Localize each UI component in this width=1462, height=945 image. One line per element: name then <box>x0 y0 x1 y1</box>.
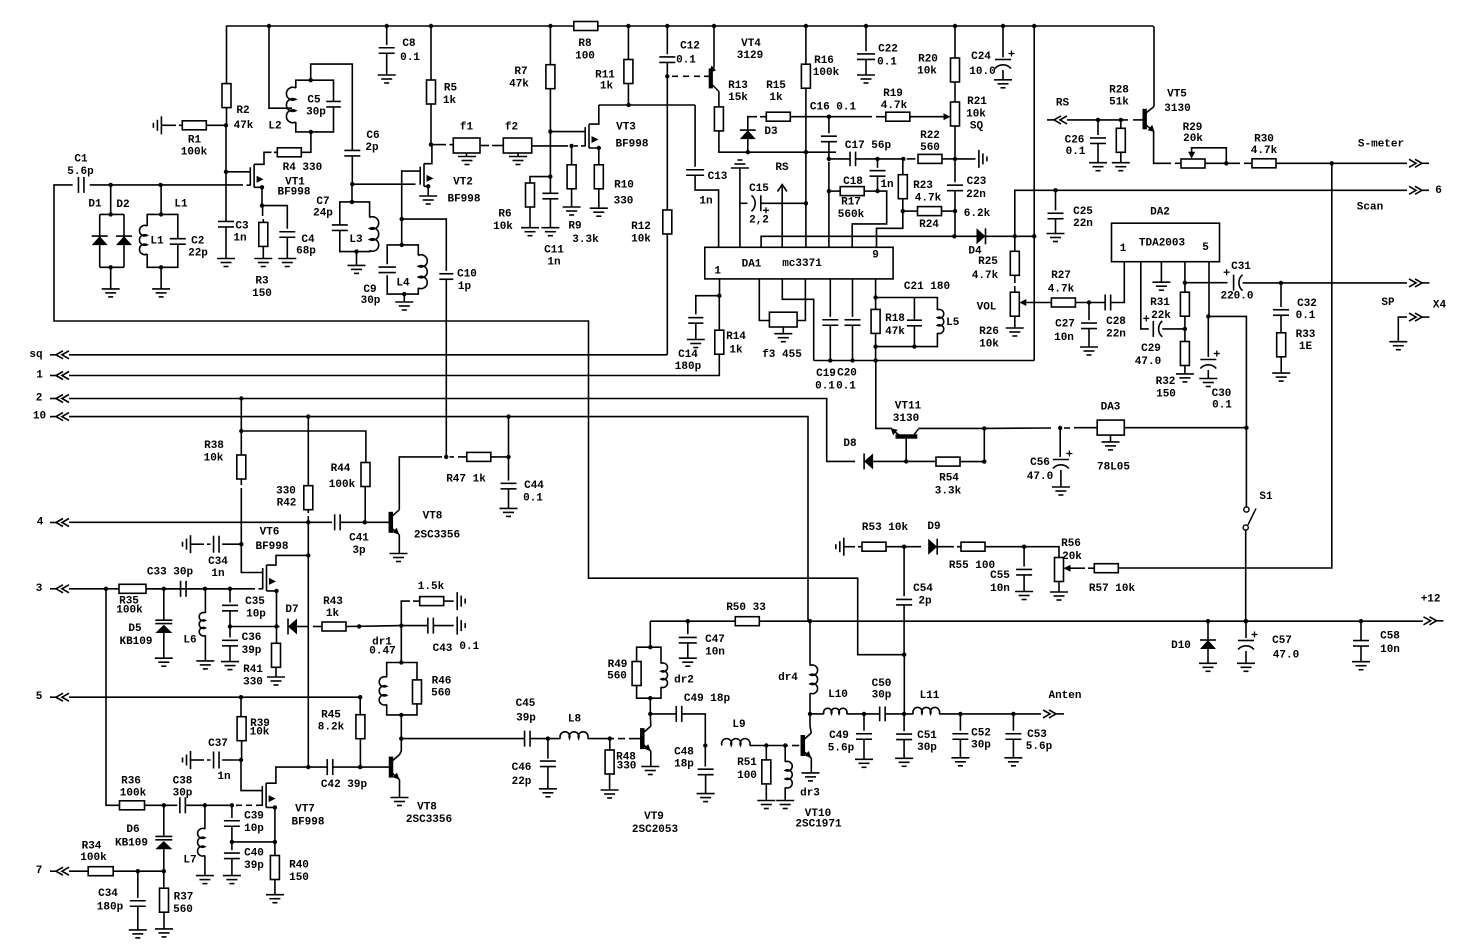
resistor R6 <box>526 183 535 207</box>
ground <box>348 264 366 266</box>
wire wiper to R27 <box>1026 302 1051 304</box>
inductor L10 <box>824 708 847 714</box>
junction <box>506 455 510 459</box>
capacitor C1 <box>77 177 79 193</box>
wire R23 jog to DA1 <box>877 211 903 247</box>
junction <box>1032 234 1036 238</box>
resistor R16 <box>801 64 810 88</box>
wire L6 <box>204 589 206 613</box>
connector chevron <box>56 351 69 359</box>
svg-text:BF998: BF998 <box>255 541 288 553</box>
svg-text:1n: 1n <box>699 196 712 208</box>
wire bus to R11 <box>627 26 629 59</box>
svg-text:R19: R19 <box>883 88 903 100</box>
svg-text:C8: C8 <box>402 38 416 50</box>
junction <box>648 696 652 700</box>
svg-text:L11: L11 <box>920 690 940 702</box>
svg-text:10.0: 10.0 <box>969 66 995 78</box>
wire f2 to ground <box>517 153 519 157</box>
svg-text:22n: 22n <box>1073 218 1093 230</box>
wire VT6 source <box>267 591 277 627</box>
ground <box>419 195 437 197</box>
wire C22 to ground <box>865 60 867 76</box>
connector chevron <box>1054 116 1067 124</box>
svg-text:1k: 1k <box>443 95 457 107</box>
junction <box>1096 118 1100 122</box>
R26 wiper arrow <box>1019 299 1026 306</box>
wire C21 bottom <box>913 326 915 347</box>
wire VT5 collector to bus <box>1152 26 1155 107</box>
ground (sideways) <box>190 751 192 769</box>
wire R19 to R21 wiper <box>910 116 944 118</box>
junction <box>569 144 573 148</box>
connector chevron <box>56 372 69 380</box>
wire C53 to ground <box>1012 739 1014 758</box>
wire C44 leg <box>508 457 510 481</box>
svg-text:2p: 2p <box>365 142 379 154</box>
diode D2 <box>116 236 132 245</box>
wire C30 to ground <box>1207 370 1209 379</box>
junction <box>982 459 986 463</box>
junction <box>267 24 271 28</box>
svg-text:C16 0.1: C16 0.1 <box>810 102 857 114</box>
svg-text:TDA2003: TDA2003 <box>1139 238 1186 250</box>
wire bus to C8 <box>386 26 388 45</box>
wire to f1 <box>431 144 446 146</box>
junction <box>1224 161 1228 165</box>
transistor VT2 BF998 <box>419 167 421 185</box>
junction <box>399 736 403 740</box>
svg-text:R57 10k: R57 10k <box>1089 583 1136 595</box>
junction <box>902 653 906 657</box>
wire D5 to ground <box>163 633 165 658</box>
svg-text:47k: 47k <box>509 79 529 91</box>
junction <box>444 455 448 459</box>
resistor R35 <box>119 584 146 593</box>
svg-text:20k: 20k <box>1183 133 1203 145</box>
capacitor C17 <box>849 152 851 167</box>
svg-text:4.7k: 4.7k <box>881 100 908 112</box>
ground <box>129 929 147 931</box>
junction <box>162 869 166 873</box>
wire D6 down <box>163 849 165 871</box>
svg-text:330: 330 <box>614 196 634 208</box>
svg-text:180p: 180p <box>97 902 124 914</box>
svg-text:C48: C48 <box>674 746 694 758</box>
svg-text:10n: 10n <box>990 583 1010 595</box>
junction <box>648 645 652 649</box>
svg-text:C49: C49 <box>829 730 849 742</box>
svg-text:C24: C24 <box>971 51 991 63</box>
svg-text:0.1: 0.1 <box>523 493 543 505</box>
svg-text:3.3k: 3.3k <box>935 486 962 498</box>
wire tank to R50 line <box>649 621 651 647</box>
wire to ground <box>110 267 112 289</box>
svg-text:0.1: 0.1 <box>459 641 479 653</box>
svg-text:30p: 30p <box>173 788 193 800</box>
wire D10 to ground <box>1207 649 1209 663</box>
svg-text:C39: C39 <box>244 811 264 823</box>
svg-text:100k: 100k <box>120 788 147 800</box>
transistor VT7 BF998 <box>261 786 263 806</box>
junction <box>804 150 808 154</box>
capacitor C20 <box>845 319 861 321</box>
junction <box>828 358 832 362</box>
svg-text:6.2k: 6.2k <box>964 208 991 220</box>
svg-text:C29: C29 <box>1141 343 1161 355</box>
wire D9 to R55 <box>937 546 954 548</box>
junction <box>548 174 552 178</box>
wire L8 to R48 node <box>588 738 614 740</box>
wire R38-R44 link <box>241 431 366 463</box>
svg-text:SP: SP <box>1381 297 1395 309</box>
wire D2 leg <box>123 214 125 236</box>
capacitor C29 47uF <box>1152 321 1154 337</box>
wire D1 leg <box>99 214 101 236</box>
svg-text:R47 1k: R47 1k <box>446 474 486 486</box>
wire R45 from line 5 <box>359 697 361 714</box>
wire L1 tank top rail <box>147 214 178 238</box>
wire VT11 collector <box>918 427 984 429</box>
connector chevron <box>56 519 69 527</box>
capacitor C27 <box>1081 322 1097 324</box>
junction <box>1244 426 1248 430</box>
svg-text:22k: 22k <box>1151 310 1171 322</box>
svg-text:10: 10 <box>33 411 46 423</box>
resistor R25 <box>1010 251 1019 275</box>
svg-text:mc3371: mc3371 <box>782 258 822 270</box>
ground <box>509 156 527 158</box>
wire VT4 collector to R13 <box>718 92 720 107</box>
wire VT11 base <box>905 438 907 461</box>
capacitor C34 <box>213 536 215 553</box>
wire C20 leg <box>852 279 854 317</box>
junction <box>1032 24 1036 28</box>
ground <box>196 660 214 662</box>
ground <box>378 74 396 76</box>
resistor R33 <box>1277 333 1286 357</box>
wire f3 right <box>797 279 805 321</box>
svg-text:D9: D9 <box>927 521 940 533</box>
wire antenna line <box>810 713 824 715</box>
junction <box>358 765 362 769</box>
wire R43 right <box>346 625 401 628</box>
wire R24 right <box>942 210 955 212</box>
wire C27 leg <box>1088 303 1090 321</box>
junction <box>1001 24 1005 28</box>
svg-text:C41: C41 <box>349 533 369 545</box>
junction <box>1330 161 1334 165</box>
wire L6 to ground <box>204 635 206 661</box>
wire R44 down <box>364 487 366 523</box>
ground <box>1004 757 1022 759</box>
svg-text:R40: R40 <box>289 860 309 872</box>
svg-text:D6: D6 <box>126 824 139 836</box>
wire from line 10 to R47 <box>508 417 510 457</box>
wire S1 to +12 bus <box>1245 530 1247 621</box>
svg-text:0.1: 0.1 <box>1212 400 1232 412</box>
wire to L4 tank <box>401 219 403 245</box>
svg-text:D2: D2 <box>116 199 129 211</box>
junction <box>804 201 808 205</box>
resistor R42 <box>304 486 313 510</box>
wire C49 down to L9 line <box>682 714 706 746</box>
svg-text:47.0: 47.0 <box>1027 471 1053 483</box>
wire C36 <box>229 627 231 638</box>
svg-text:C58: C58 <box>1380 631 1400 643</box>
wire dr4 down <box>809 693 811 714</box>
svg-text:R32: R32 <box>1156 376 1176 388</box>
wire dr2 tank bottom <box>637 686 661 699</box>
resistor 1.5k <box>420 597 444 606</box>
svg-text:C1: C1 <box>74 154 88 166</box>
wire C26 to ground <box>1097 144 1099 163</box>
wire to C13 <box>694 105 696 167</box>
connector chevron <box>1409 186 1422 194</box>
resistor R34 <box>88 867 113 876</box>
connector chevron <box>1409 159 1422 167</box>
IC DA1 mc3371 <box>705 247 893 279</box>
wire C55 leg <box>1023 547 1025 567</box>
wire tank to ground <box>356 252 358 266</box>
wire VT11 emitter <box>876 361 892 429</box>
wire C45 to L8 <box>531 738 561 740</box>
capacitor C15 2.2uF <box>752 195 756 211</box>
junction <box>982 426 986 430</box>
svg-text:L6: L6 <box>183 635 196 647</box>
svg-text:C50: C50 <box>872 678 892 690</box>
resistor R23 <box>898 175 907 199</box>
svg-text:C36: C36 <box>242 632 262 644</box>
junction <box>808 619 812 623</box>
wire C58 leg <box>1360 621 1362 640</box>
svg-text:R51: R51 <box>737 757 757 769</box>
wire collector line to DA3 <box>984 427 1051 429</box>
wire C43 line <box>401 625 427 627</box>
svg-text:330: 330 <box>617 761 637 773</box>
svg-text:C2: C2 <box>191 235 204 247</box>
svg-text:1k: 1k <box>326 608 340 620</box>
capacitor C28 <box>1104 295 1106 311</box>
wire R55 to R56 <box>986 547 1059 558</box>
ground <box>278 258 296 260</box>
junction <box>309 130 313 134</box>
svg-text:10p: 10p <box>246 609 266 621</box>
svg-text:2SC3356: 2SC3356 <box>406 814 452 826</box>
svg-text:0.1: 0.1 <box>815 381 835 393</box>
wire to D1 D2 rail <box>110 185 112 215</box>
wire VT7 drain <box>266 767 327 783</box>
svg-text:R46: R46 <box>432 676 452 688</box>
svg-text:5.6p: 5.6p <box>67 166 94 178</box>
svg-text:C49 18p: C49 18p <box>684 693 731 705</box>
junction <box>958 712 962 716</box>
svg-text:3.3k: 3.3k <box>572 234 599 246</box>
wire C7 tank bottom <box>340 231 370 252</box>
wire L7 <box>204 805 206 829</box>
wire C39 leg <box>231 805 233 818</box>
svg-text:20k: 20k <box>1062 551 1082 563</box>
ground (sideways) <box>160 116 162 134</box>
wire pin5 jog to S1 <box>1208 316 1246 427</box>
svg-text:1k: 1k <box>769 92 783 104</box>
svg-text:C34: C34 <box>208 556 228 568</box>
capacitor C10 <box>439 273 453 275</box>
resistor R8 <box>574 22 598 31</box>
junction <box>230 840 234 844</box>
junction <box>804 24 808 28</box>
svg-text:10n: 10n <box>705 646 725 658</box>
wire DA2 gnd pin <box>1160 262 1162 283</box>
wire RS down to DA1 <box>781 203 783 247</box>
svg-text:D1: D1 <box>88 199 102 211</box>
wire VT10 collector <box>810 714 811 733</box>
wire R31 <box>1184 283 1186 293</box>
resistor R30 <box>1252 159 1276 168</box>
svg-text:1: 1 <box>1120 243 1127 255</box>
inductor L2 <box>286 87 295 122</box>
wire VT2 gate1 jog <box>402 171 421 184</box>
wire C34b leg <box>137 871 139 898</box>
capacitor C7 <box>332 224 348 226</box>
svg-text:L5: L5 <box>946 317 960 329</box>
svg-text:C28: C28 <box>1106 316 1126 328</box>
junction <box>665 24 669 28</box>
wire C15 line <box>740 202 748 204</box>
svg-text:47k: 47k <box>234 120 254 132</box>
wire C48 <box>704 746 706 767</box>
svg-text:100k: 100k <box>329 479 356 491</box>
wire C39 down <box>231 826 233 842</box>
junction <box>109 183 113 187</box>
wire to R3 <box>262 206 264 216</box>
wire RS to VT5 base <box>1067 119 1128 121</box>
ground <box>857 74 875 76</box>
svg-text:10p: 10p <box>244 823 264 835</box>
capacitor C53 <box>1005 733 1021 735</box>
trimmer R56 <box>1055 558 1064 582</box>
diode D1 <box>92 236 108 245</box>
svg-text:8.2k: 8.2k <box>318 722 345 734</box>
ground <box>391 797 409 799</box>
wire R11 down <box>627 84 629 106</box>
junction <box>1013 234 1017 238</box>
resistor R27 <box>1051 298 1075 307</box>
svg-text:10k: 10k <box>966 109 986 121</box>
wire tank to bottom bus <box>875 347 877 361</box>
wire R54 right <box>960 461 984 463</box>
wire C17 to C18 node <box>856 158 904 160</box>
wire R17 right <box>864 190 877 192</box>
svg-text:R43: R43 <box>323 596 343 608</box>
wire C48 to ground <box>705 775 707 794</box>
ground <box>390 553 408 555</box>
capacitor C34 (2) <box>130 900 146 902</box>
ground <box>757 800 775 802</box>
junction <box>862 712 866 716</box>
svg-text:S-meter: S-meter <box>1358 139 1404 151</box>
svg-text:R4 330: R4 330 <box>283 162 323 174</box>
wire C32 to R33 <box>1280 315 1282 333</box>
ground <box>221 661 239 663</box>
wire to C4 <box>262 206 287 229</box>
ground <box>500 507 518 509</box>
wire C46 leg <box>547 739 549 759</box>
svg-text:3: 3 <box>36 583 43 595</box>
svg-text:10k: 10k <box>493 221 513 233</box>
svg-text:R27: R27 <box>1051 270 1071 282</box>
junction <box>912 344 916 348</box>
svg-text:R38: R38 <box>204 440 224 452</box>
wire gnd to C34 <box>191 543 205 545</box>
wire to C14 <box>696 296 720 315</box>
wire to side ground <box>444 600 454 602</box>
wire R31 down <box>1184 316 1186 341</box>
wire C28 to DA2 pin1 <box>1111 262 1124 303</box>
wire C35 leg <box>229 589 231 603</box>
resistor R57 <box>1094 564 1118 573</box>
resistor R53 <box>862 542 886 551</box>
wire R45 down <box>359 739 361 767</box>
svg-text:R42: R42 <box>277 498 297 510</box>
junction <box>239 429 243 433</box>
junction <box>902 545 906 549</box>
wire down to C7 tank <box>351 184 353 202</box>
capacitor C52 <box>952 733 968 735</box>
wire pin jog to bottom bus <box>782 279 813 361</box>
svg-text:4.7k: 4.7k <box>1048 284 1075 296</box>
wire C27 to ground <box>1088 329 1090 347</box>
junction <box>952 234 956 238</box>
svg-text:24p: 24p <box>313 208 333 220</box>
junction <box>827 189 831 193</box>
wire tank bottom rail <box>876 333 938 347</box>
ground <box>1112 162 1130 164</box>
ground <box>395 301 413 303</box>
wire C18 top <box>877 159 879 168</box>
wire wiper to R57 <box>1071 567 1086 569</box>
wire R10 to ground <box>598 189 600 208</box>
wire to S1 <box>1245 428 1247 507</box>
svg-text:C38: C38 <box>173 776 193 788</box>
wire R15 right to C16 node <box>791 116 829 118</box>
svg-text:Anten: Anten <box>1048 690 1081 702</box>
wire +12 bus <box>759 620 1423 622</box>
svg-text:C55: C55 <box>990 570 1010 582</box>
ground <box>155 657 173 659</box>
capacitor C22 <box>857 53 875 55</box>
wire TX supply down <box>307 522 309 767</box>
wire C49b <box>863 714 865 731</box>
wire R9 to ground <box>571 189 573 207</box>
capacitor C58 <box>1353 640 1369 642</box>
ground <box>1237 662 1255 664</box>
svg-text:C52: C52 <box>971 728 991 740</box>
resistor R38 <box>237 455 246 479</box>
wire DA1 pin1 down <box>719 279 721 296</box>
svg-text:L2: L2 <box>268 121 281 133</box>
junction <box>1011 712 1015 716</box>
junction <box>203 803 207 807</box>
wire VT7 source <box>266 807 275 855</box>
svg-text:C20: C20 <box>837 368 857 380</box>
wire gate1 VT3 <box>550 131 585 133</box>
svg-text:C21 180: C21 180 <box>904 281 950 293</box>
svg-text:VT8: VT8 <box>423 511 443 523</box>
svg-text:1: 1 <box>714 266 721 278</box>
junction <box>1206 619 1210 623</box>
wire C23 chain down <box>954 211 956 236</box>
